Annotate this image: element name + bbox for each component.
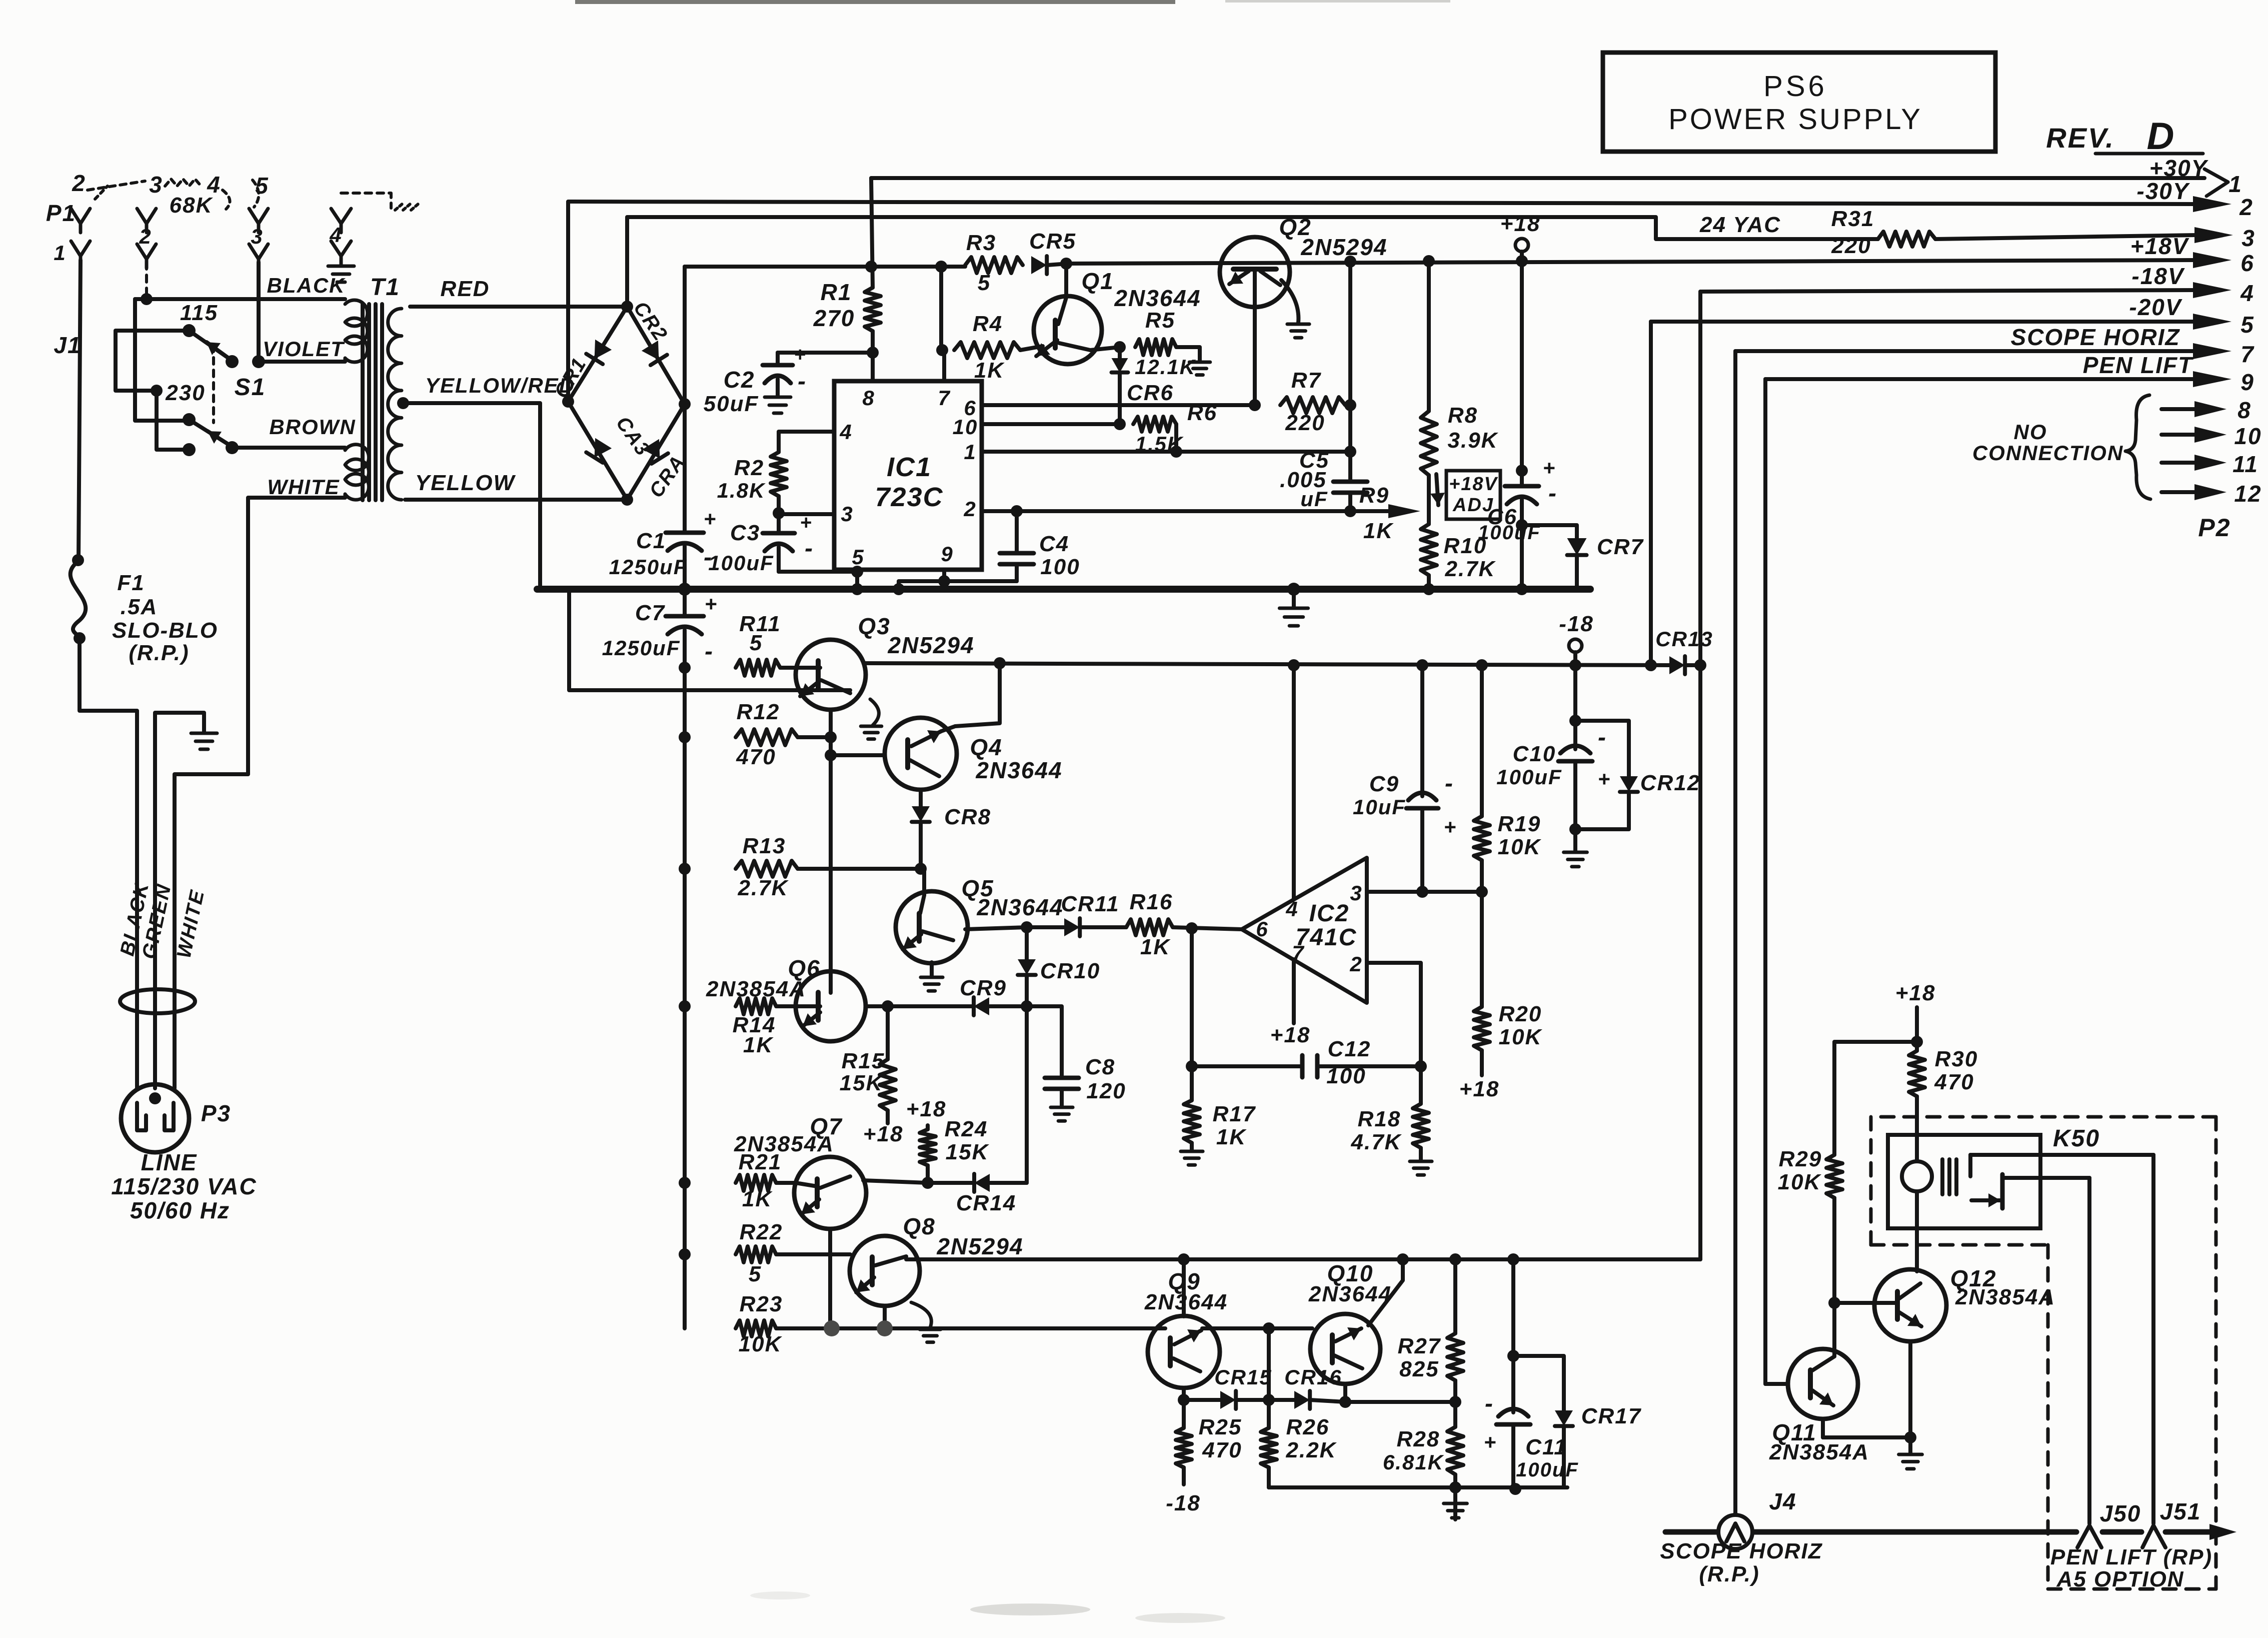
P2 pin 6 arrow [2193,250,2254,276]
Q4 labels [970,734,1062,783]
svg-text:115: 115 [180,301,218,325]
svg-text:SCOPE HORIZ: SCOPE HORIZ [2011,324,2180,350]
P2 pin 9 arrow [2193,369,2254,395]
wire to S1 230 contacts [135,299,189,421]
J1 pin 4 arrows [329,209,351,265]
svg-text:-18: -18 [1166,1491,1201,1515]
PEN LIFT (RP) label [2050,1545,2212,1569]
J4 bus segment 3 (heavy) [2165,1524,2236,1540]
IC1 pin5 wire [851,570,863,595]
svg-text:+18: +18 [1459,1077,1500,1101]
label 24 YAC [1699,213,1781,237]
svg-text:VIOLET: VIOLET [263,337,345,361]
transformer T1 secondary winding [388,309,402,500]
relay K50 coil box [1888,1135,2040,1228]
resistor R25 [1166,1400,1242,1515]
Q5 ground [921,962,943,991]
svg-text:-20V: -20V [2129,294,2182,320]
svg-text:R15: R15 [842,1049,885,1073]
title box [1603,53,1995,152]
-18 rail [866,663,1669,665]
svg-text:470: 470 [1202,1438,1242,1462]
R29 branch [1834,1042,1917,1155]
svg-text:.5A: .5A [121,595,158,619]
svg-text:10: 10 [953,415,978,439]
svg-text:100uF: 100uF [1496,765,1562,789]
svg-text:YELLOW: YELLOW [415,471,516,495]
transformer T1 core [363,304,382,500]
svg-text:-: - [798,368,807,395]
wire R31 to pin3 [1935,235,2195,239]
svg-text:C3: C3 [730,521,760,545]
S1 throw contacts lower [183,441,239,456]
svg-text:24 YAC: 24 YAC [1699,213,1781,237]
Q1 labels [1081,268,1201,311]
label GREEN (cord) [138,882,176,961]
svg-text:+18: +18 [1500,212,1541,236]
svg-text:2N3854A: 2N3854A [1955,1285,2055,1309]
wire F1 to plug [80,638,137,1088]
label WHITE (cord) [173,888,209,960]
svg-text:C12: C12 [1328,1037,1371,1061]
Q9 labels [1144,1268,1228,1314]
svg-text:100uF: 100uF [1516,1459,1579,1481]
bottom return line [1269,1481,1567,1495]
CR14 riser [1025,1006,1029,1183]
ground bus (heavy) [537,586,1590,593]
Q8 ground [911,1302,941,1342]
svg-text:10uF: 10uF [1353,795,1406,819]
svg-text:Q8: Q8 [903,1213,935,1239]
svg-text:+18: +18 [863,1122,904,1146]
svg-text:CR6: CR6 [1127,381,1174,405]
diode CR11 [1027,892,1126,936]
svg-text:723C: 723C [875,482,943,512]
svg-text:CR15: CR15 [1214,1365,1272,1389]
resistor R22 [679,1220,850,1286]
Q5 labels [961,875,1063,920]
node bridge top [621,301,633,313]
diode CR7 [1516,519,1644,589]
resistor R26 [1261,1400,1337,1487]
svg-text:6.81K: 6.81K [1383,1450,1444,1474]
IC2 pin3 line [1367,886,1488,898]
capacitor C12 [1197,1037,1421,1088]
svg-text:2: 2 [963,497,976,521]
svg-text:R8: R8 [1448,403,1478,428]
svg-text:2N3854A: 2N3854A [734,1132,834,1156]
vertical to R4 node [936,267,948,356]
resistor R12 [679,700,831,769]
svg-text:12.1K: 12.1K [1135,355,1196,379]
node bridge left [562,396,574,408]
svg-text:-: - [704,544,713,571]
capacitor C9 [1353,659,1457,892]
svg-text:2N3644: 2N3644 [976,894,1063,920]
resistor R6 [1133,401,1217,456]
wire pin3 to VIOLET [257,262,261,362]
resistor R23 [736,1292,1312,1400]
-18 terminal [1559,612,1594,671]
svg-text:(R.P.): (R.P.) [1699,1562,1759,1586]
svg-text:PS6: PS6 [1763,70,1827,103]
svg-text:10K: 10K [1499,1025,1543,1049]
wire YELLOW/RED center tap [397,397,540,589]
plug P3 [121,1084,231,1152]
svg-text:7: 7 [2240,341,2254,367]
resistor R4 [954,312,1020,383]
svg-text:230: 230 [165,381,205,405]
svg-text:+18V: +18V [1449,474,1498,495]
P1 pin 2 marker [72,170,86,196]
svg-text:R24: R24 [945,1117,988,1141]
wire J50 [2087,1178,2091,1523]
svg-text:10K: 10K [1778,1170,1822,1194]
svg-text:BLACK: BLACK [267,274,346,297]
IC1 pin2 line [982,505,1381,517]
svg-text:SCOPE HORIZ: SCOPE HORIZ [1660,1539,1822,1563]
resistor R31 [1831,207,1935,258]
diode CR1 [550,340,612,402]
svg-text:CR14: CR14 [956,1191,1017,1215]
transistor Q5 [896,869,968,963]
diode CR2 [629,298,672,366]
svg-text:1.8K: 1.8K [717,479,766,502]
+18 terminal [1500,212,1541,267]
svg-text:-: - [1485,1390,1494,1417]
C10 ground [1564,829,1587,867]
transistor Q12 [1874,1228,1946,1437]
NC pin 8 [2161,397,2251,423]
svg-text:+: + [1598,767,1611,791]
svg-text:1: 1 [964,440,976,464]
svg-text:15K: 15K [840,1071,884,1095]
wire YELLOW to bridge [405,498,627,502]
R3 feed line [685,261,965,273]
P1 pin 5 marker [255,173,269,199]
node CR6 bottom [1114,418,1126,430]
svg-text:J1: J1 [54,332,81,358]
svg-text:2N5294: 2N5294 [936,1233,1023,1259]
IC2 pin7 wire [1270,959,1311,1047]
C7 return line [569,592,850,690]
svg-text:2N5294: 2N5294 [1300,234,1387,260]
svg-text:C10: C10 [1513,742,1556,766]
Q5 collector line [965,921,1033,933]
24VAC rail [627,217,1878,307]
svg-text:LINE: LINE [141,1149,198,1175]
svg-text:10K: 10K [1498,835,1542,859]
resistor R7 [1280,368,1345,435]
svg-text:470: 470 [736,745,776,769]
svg-text:2N3854A: 2N3854A [1769,1440,1869,1464]
Q7 labels [734,1113,843,1156]
resistor R15 [840,1000,904,1146]
svg-text:6: 6 [2240,250,2254,276]
R2 labels [717,456,766,502]
node R1 bottom [867,347,879,359]
fuse F1 [71,554,86,644]
svg-text:1K: 1K [1216,1125,1247,1149]
svg-text:2.7K: 2.7K [738,876,789,900]
IC1 pin3 line [773,507,834,519]
svg-text:9: 9 [2240,369,2254,395]
node Q7 emitter join [824,1320,840,1336]
Q3 ground [861,699,882,739]
svg-text:+: + [794,344,806,366]
+18V ADJ box [1430,471,1500,519]
S1 label 115 [180,301,218,325]
svg-text:2: 2 [2239,194,2253,220]
svg-text:9: 9 [941,542,953,566]
-20V output [1645,322,2193,671]
Q8 collector rail [906,665,1700,1259]
svg-text:R9: R9 [1359,483,1389,508]
IC1 pin1 line [982,446,1356,458]
R17 riser [1186,929,1198,1072]
svg-text:+18V: +18V [2130,233,2189,259]
svg-text:R19: R19 [1498,812,1541,836]
R28 ground [1444,1487,1467,1518]
resistor R21 [679,1150,796,1211]
J4 bus (heavy) [1665,1529,2076,1535]
svg-text:R29: R29 [1779,1147,1822,1171]
Q3 emitter drop [825,710,837,971]
Q8 labels [903,1213,1023,1259]
svg-text:CR5: CR5 [1029,229,1076,254]
transistor Q8 [850,1236,920,1328]
svg-text:5: 5 [852,545,864,569]
svg-text:+: + [704,507,717,531]
Q3 labels [858,613,974,658]
-30V label [2136,178,2190,204]
svg-text:IC2: IC2 [1309,900,1350,927]
C8 branch [1027,1006,1126,1121]
A5 OPTION label [2056,1567,2184,1591]
svg-text:4: 4 [2240,280,2254,306]
svg-text:WHITE: WHITE [267,475,340,499]
svg-text:CR17: CR17 [1581,1404,1642,1428]
svg-text:CR16: CR16 [1284,1365,1342,1389]
svg-text:-: - [1548,480,1557,507]
diode CR6 [1112,347,1174,424]
svg-text:Q4: Q4 [970,734,1002,760]
svg-text:4.7K: 4.7K [1351,1130,1402,1154]
bus junction C1 [678,583,691,596]
Q6 labels [706,955,821,1001]
svg-text:5: 5 [255,173,269,199]
resistor R27 [1398,1253,1463,1408]
svg-text:+: + [800,512,812,534]
transistor Q11 [1765,1349,1858,1437]
-18V output [1700,290,2193,665]
svg-text:CR12: CR12 [1640,771,1701,795]
NC pin 12 [2161,481,2262,507]
resistor R10 [1421,475,1496,589]
svg-text:50/60 Hz: 50/60 Hz [130,1197,230,1223]
svg-text:-18V: -18V [2131,263,2184,289]
svg-text:PEN LIFT: PEN LIFT [2083,352,2194,378]
capacitor C11 [1484,1253,1579,1487]
transistor Q10 [1310,1253,1409,1402]
capacitor C7 [602,589,718,1328]
Q12 labels [1950,1265,2055,1309]
P2 label [2198,514,2230,542]
svg-text:CR9: CR9 [960,976,1007,1000]
+30V rail [871,176,2204,180]
dashed link pins 4-5 [223,180,259,209]
wire 115 contact feed [116,331,189,391]
wire BROWN [232,446,345,450]
node Q1 emitter [1114,341,1126,353]
svg-text:1250uF: 1250uF [602,636,681,660]
svg-text:R28: R28 [1397,1427,1440,1451]
S1 contact G [151,385,189,450]
svg-text:-: - [1445,770,1454,797]
F1 labels [112,571,218,665]
transistor Q2 [1220,237,1290,405]
svg-text:J4: J4 [1769,1488,1796,1514]
jack J50 [2077,1500,2141,1547]
svg-text:R30: R30 [1935,1047,1978,1071]
svg-text:3.9K: 3.9K [1448,428,1499,453]
J1 pin 3 arrows [249,209,268,268]
SCOPE HORIZ (R.P.) label [1660,1539,1822,1586]
+30V label [2149,155,2209,181]
-30V rail [568,202,2193,402]
P1 pin 3 marker [149,172,163,198]
svg-text:R5: R5 [1145,308,1175,333]
svg-text:3: 3 [841,502,853,526]
resistor R1 [865,178,881,353]
PEN LIFT output [1765,379,2193,1384]
svg-text:R12: R12 [737,700,780,724]
connector P1 label [46,200,76,226]
svg-text:10K: 10K [739,1332,783,1356]
bridge diamond [568,307,685,500]
svg-text:120: 120 [1086,1079,1126,1103]
IC1 pin4 wire + R2 [771,432,834,513]
svg-text:+18: +18 [906,1097,947,1121]
resistor R3 [965,257,1023,273]
label WHITE [267,475,340,499]
diode CR17 [1513,1356,1642,1487]
resistor 68K (dashed) [165,179,214,218]
SCOPE HORIZ output [1735,351,2193,1515]
node bridge bottom [621,494,633,506]
label LINE [141,1149,198,1175]
svg-text:1K: 1K [1140,935,1171,959]
diode CR15 [1214,1365,1272,1409]
ground pin 4 [328,266,354,282]
R5 labels [1135,308,1196,379]
P2 pin 3 arrow [2194,225,2255,251]
Q2 labels [1279,214,1387,260]
svg-text:A5 OPTION: A5 OPTION [2056,1567,2184,1591]
svg-text:C1: C1 [636,529,666,553]
resistor R5 [1135,339,1210,375]
svg-text:+: + [1444,815,1457,839]
diode CR5 [1029,229,1076,274]
J1 pin 2 arrows [137,209,156,268]
wire J51 [2151,1155,2155,1523]
resistor R17 [1181,1066,1256,1165]
dashed stub above pin4 [341,193,418,210]
diode CR16 [1263,1365,1351,1409]
svg-text:5: 5 [750,631,763,655]
IC2 pin4 wire [1288,659,1300,899]
transistor Q6 [796,971,866,1041]
resistor R14 [679,998,797,1057]
resistor R28 [1383,1402,1463,1519]
Q7 collector line [863,1177,934,1189]
S1 label [235,374,266,401]
svg-text:+18: +18 [1895,981,1936,1005]
+18V output label [2130,233,2189,259]
wire GREEN with ground [155,713,217,1088]
jack J4 [1718,1488,1797,1549]
svg-text:Q1: Q1 [1081,268,1114,294]
svg-text:R22: R22 [740,1220,783,1244]
svg-text:470: 470 [1934,1070,1974,1094]
svg-text:S1: S1 [235,374,266,401]
svg-text:R16: R16 [1130,890,1173,914]
transistor Q1 [1020,264,1120,364]
svg-text:NO: NO [2014,420,2047,444]
switch S1 pole 115 [183,324,232,361]
label VIOLET [263,337,345,361]
-20V label [2129,294,2182,320]
diode CR10 [1018,927,1100,1006]
CR15/CR16 line [1178,1394,1220,1406]
svg-text:IC1: IC1 [887,452,932,482]
svg-text:uF: uF [1300,487,1328,511]
svg-text:-: - [1598,724,1607,751]
label YELLOW/RED [425,374,575,397]
diode CR14 [928,1174,1027,1215]
revision mark REV. D [2046,115,2203,158]
transistor Q3 [796,640,866,710]
diode CR13 [1655,627,1713,674]
svg-text:(R.P.): (R.P.) [129,641,189,665]
diode CR9 [866,976,1033,1015]
svg-text:15K: 15K [946,1140,990,1164]
J4 bus segment 2 (heavy) [2102,1529,2141,1535]
svg-text:1K: 1K [974,358,1005,383]
svg-text:R23: R23 [740,1292,783,1316]
svg-text:2N3644: 2N3644 [975,757,1062,783]
Q4 collector wire [955,657,1006,726]
resistor R19 [1474,659,1542,892]
svg-text:5: 5 [978,271,991,295]
svg-text:CR11: CR11 [1061,892,1119,916]
label 50/60 Hz [130,1197,230,1223]
svg-text:5: 5 [2240,312,2254,338]
-18V label [2131,263,2184,289]
pin9/C4 ground run [893,581,1017,595]
S1 throw contacts upper [226,355,265,368]
label BLACK [267,274,346,297]
svg-text:R27: R27 [1398,1334,1441,1358]
transistor Q9 [1148,1253,1220,1400]
wire CR5 to +18 rail [1047,258,1072,270]
C3 to pin5 ground run [779,566,863,578]
label YELLOW [415,471,516,495]
IC1 pin10 line [982,422,1120,426]
transistor Q7 [794,1157,866,1328]
svg-text:R26: R26 [1286,1415,1330,1439]
svg-text:REV.: REV. [2046,122,2115,154]
